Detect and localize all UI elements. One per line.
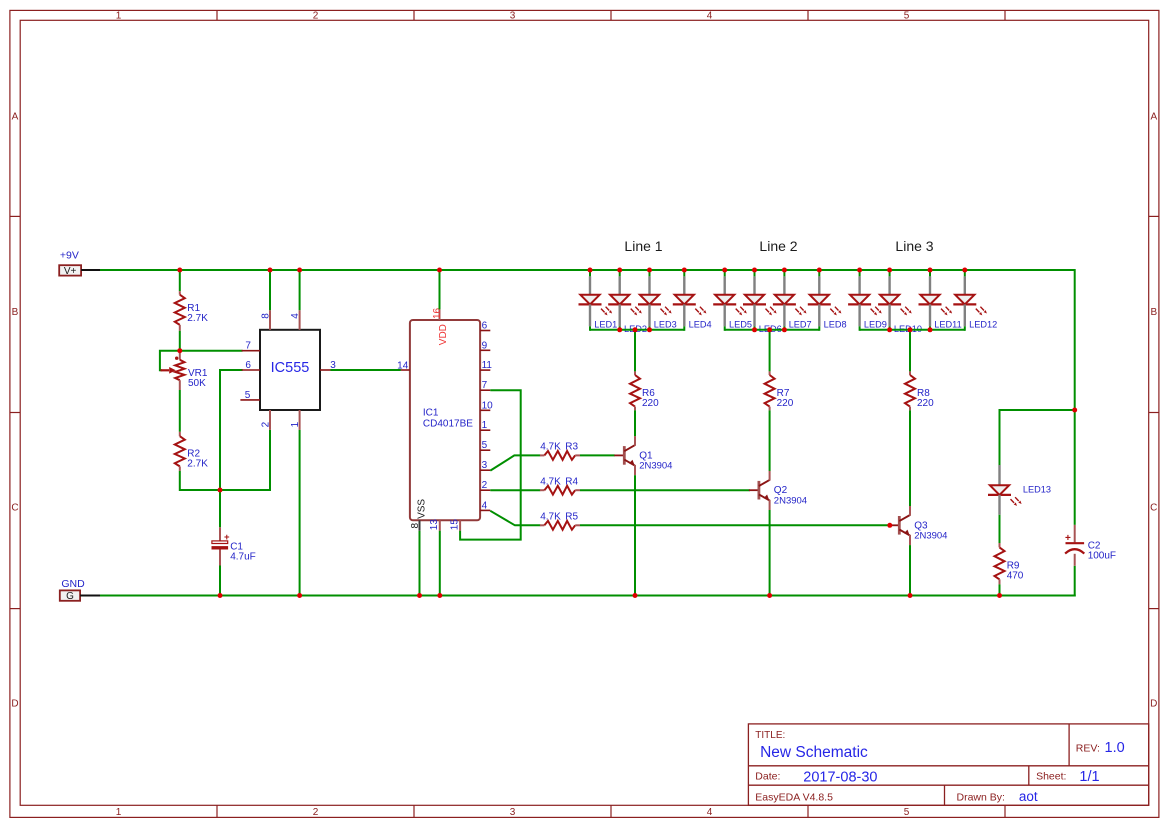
svg-text:LED8: LED8 <box>824 320 847 330</box>
LED3 <box>638 270 677 331</box>
wire line3 tap <box>909 330 911 372</box>
pin 8 stub (VSS) <box>419 520 421 531</box>
svg-text:Line 3: Line 3 <box>895 238 933 254</box>
LED1 <box>579 270 618 331</box>
power flag V+ (+9V) <box>59 250 100 277</box>
svg-text:EasyEDA V4.8.5: EasyEDA V4.8.5 <box>755 791 833 803</box>
svg-text:A: A <box>1150 112 1157 123</box>
svg-text:1/1: 1/1 <box>1079 769 1099 785</box>
svg-text:CD4017BE: CD4017BE <box>423 419 473 430</box>
svg-text:14: 14 <box>397 360 409 371</box>
svg-text:6: 6 <box>245 360 251 371</box>
wire LED13 branch top <box>1000 409 1075 411</box>
LED11 <box>919 270 962 331</box>
pin 9 stub <box>480 349 490 351</box>
svg-text:IC555: IC555 <box>271 360 310 376</box>
svg-text:7: 7 <box>245 341 251 352</box>
junction GND rail <box>297 593 302 598</box>
svg-text:4: 4 <box>482 500 488 511</box>
junction Q3 base <box>887 523 892 528</box>
junction cathode rail <box>908 327 913 332</box>
svg-text:Line 1: Line 1 <box>624 238 662 254</box>
svg-text:GND: GND <box>61 578 85 590</box>
svg-text:8: 8 <box>410 523 421 529</box>
svg-text:VDD: VDD <box>438 324 449 345</box>
svg-text:16: 16 <box>432 307 443 319</box>
junction +9V rail <box>817 268 822 273</box>
wire pin8 to GND <box>419 531 421 597</box>
junction cathode rail <box>928 327 933 332</box>
junction +9V rail <box>722 268 727 273</box>
svg-text:LED12: LED12 <box>969 320 997 330</box>
wire LED13 anode <box>999 409 1001 465</box>
wire pin2 to R4 <box>490 489 540 491</box>
svg-text:A: A <box>12 112 19 123</box>
pin 11 stub <box>480 369 490 371</box>
svg-text:1: 1 <box>116 807 122 818</box>
wire line1 cathode rail <box>590 329 684 331</box>
wire line3 cathode rail <box>860 329 965 331</box>
resistor R7 220 <box>765 371 794 410</box>
junction +9V rail <box>857 268 862 273</box>
wire node 2-6 <box>180 430 270 490</box>
wire right rail lower <box>1074 566 1076 597</box>
wire wiper loop <box>160 351 180 371</box>
svg-text:TITLE:: TITLE: <box>755 730 785 741</box>
svg-text:REV:: REV: <box>1076 743 1100 755</box>
wire pin1 to GND <box>299 430 301 597</box>
wire right rail upper <box>1074 269 1076 525</box>
resistor R2 2.7K <box>175 432 208 471</box>
svg-text:LED4: LED4 <box>689 320 712 330</box>
junction +9V rail <box>928 268 933 273</box>
pin 5 stub <box>240 399 260 401</box>
svg-text:LED13: LED13 <box>1023 485 1051 495</box>
svg-text:7: 7 <box>482 380 488 391</box>
svg-text:2017-08-30: 2017-08-30 <box>803 769 877 785</box>
svg-text:10: 10 <box>482 400 494 411</box>
junction cathode rail <box>752 327 757 332</box>
wire pin8 to V+ <box>269 270 271 310</box>
transistor Q3 2N3904 <box>889 506 947 545</box>
LED13 <box>988 465 1051 515</box>
svg-text:+9V: +9V <box>60 250 79 262</box>
svg-text:1: 1 <box>482 420 488 431</box>
pin 4 stub <box>480 509 490 511</box>
op-amp timer IC555 <box>260 330 320 410</box>
wire pin15 to pin7 <box>460 390 521 539</box>
junction node C1 <box>218 488 223 493</box>
junction GND rail <box>218 593 223 598</box>
svg-text:470: 470 <box>1007 571 1024 582</box>
wire line2 cathode rail <box>725 329 820 331</box>
wire R9 to GND <box>999 584 1001 596</box>
svg-text:8: 8 <box>260 313 271 319</box>
svg-text:LED1: LED1 <box>594 320 617 330</box>
svg-text:220: 220 <box>642 398 659 409</box>
junction +9V rail <box>268 268 273 273</box>
svg-text:2: 2 <box>260 421 271 427</box>
pin 16 stub <box>439 309 441 320</box>
svg-text:LED11: LED11 <box>934 320 961 330</box>
svg-text:5: 5 <box>482 440 488 451</box>
svg-text:2.7K: 2.7K <box>187 313 208 324</box>
junction +9V rail <box>177 268 182 273</box>
potentiometer VR1 50K <box>160 351 207 390</box>
LED5 <box>713 270 752 331</box>
svg-text:B: B <box>12 307 19 318</box>
LED12 <box>953 270 997 331</box>
pin 1 stub <box>299 410 301 430</box>
svg-text:15: 15 <box>449 519 460 531</box>
junction cathode rail <box>633 327 638 332</box>
pin 1 stub <box>480 429 490 431</box>
svg-text:B: B <box>1150 307 1157 318</box>
svg-text:2.7K: 2.7K <box>187 458 208 469</box>
wire Q3 emitter to GND <box>909 545 911 596</box>
wire +9V top rail <box>100 269 1075 271</box>
pin 10 stub <box>480 409 490 411</box>
wire C1 top <box>219 490 221 527</box>
pin 2 stub <box>480 489 490 491</box>
svg-text:9: 9 <box>482 340 488 351</box>
resistor R8 220 <box>905 371 934 410</box>
junction +9V rail <box>617 268 622 273</box>
svg-text:D: D <box>1150 698 1157 709</box>
wire VR1 to R2 <box>179 390 181 432</box>
svg-text:R3: R3 <box>565 442 578 453</box>
svg-text:Date:: Date: <box>755 771 780 783</box>
resistor R9 470 <box>995 543 1024 584</box>
svg-text:100uF: 100uF <box>1088 551 1116 562</box>
wire pin4 to V+ <box>299 270 301 310</box>
pin 4 stub <box>299 310 301 330</box>
svg-text:VSS: VSS <box>416 499 427 519</box>
resistor R3 4.7K <box>540 442 580 460</box>
capacitor C2 100uF <box>1065 525 1116 566</box>
svg-text:2N3904: 2N3904 <box>774 495 807 506</box>
svg-text:2N3904: 2N3904 <box>639 461 672 472</box>
svg-text:4.7K: 4.7K <box>540 512 561 523</box>
svg-text:IC1: IC1 <box>423 408 439 419</box>
junction cathode rail <box>617 327 622 332</box>
svg-text:2: 2 <box>313 11 319 22</box>
wire LED13 to R9 <box>999 515 1001 543</box>
junction GND rail <box>908 593 913 598</box>
svg-text:R5: R5 <box>565 512 578 523</box>
resistor R4 4.7K <box>540 476 580 494</box>
wire Q2 emitter to GND <box>769 510 771 597</box>
svg-text:R4: R4 <box>565 476 578 487</box>
transistor Q1 2N3904 <box>614 436 672 475</box>
wire R5 to Q3 base <box>580 524 890 526</box>
junction GND rail <box>767 593 772 598</box>
counter IC1 CD4017BE <box>410 320 480 520</box>
svg-text:D: D <box>11 698 18 709</box>
junction +9V rail <box>782 268 787 273</box>
svg-text:4.7uF: 4.7uF <box>230 552 256 563</box>
pin 6 stub <box>242 369 260 371</box>
capacitor C1 4.7uF <box>212 527 256 565</box>
svg-text:4.7K: 4.7K <box>540 442 561 453</box>
pin 15 stub <box>459 520 461 531</box>
LED9 <box>848 270 887 331</box>
junction cathode rail <box>767 327 772 332</box>
wire R2 to node26 <box>179 471 181 491</box>
wire node7 to pin7 <box>180 350 243 352</box>
svg-text:1: 1 <box>116 11 122 22</box>
svg-text:6: 6 <box>482 321 488 332</box>
svg-text:New Schematic: New Schematic <box>760 744 868 761</box>
wire R3 to Q1 base <box>580 454 615 456</box>
pin 3 stub <box>480 469 490 471</box>
pin 14 stub <box>401 369 410 371</box>
wire R6 to Q1 collector <box>634 410 636 436</box>
wire pin16 to V+ <box>439 270 441 309</box>
junction right rail <box>1072 408 1077 413</box>
svg-text:LED3: LED3 <box>654 320 677 330</box>
wire V+ to R1 <box>179 270 181 291</box>
svg-text:1: 1 <box>290 421 301 427</box>
LED4 <box>673 270 712 331</box>
svg-text:5: 5 <box>904 11 910 22</box>
junction cathode rail <box>887 327 892 332</box>
junction GND rail <box>437 593 442 598</box>
svg-text:C: C <box>11 503 18 514</box>
svg-text:Sheet:: Sheet: <box>1036 771 1066 783</box>
svg-text:4: 4 <box>707 807 713 818</box>
svg-text:G: G <box>66 591 74 602</box>
wire line2 tap <box>769 330 771 372</box>
svg-text:4: 4 <box>707 11 713 22</box>
svg-text:4: 4 <box>290 313 301 319</box>
junction GND rail <box>633 593 638 598</box>
junction cathode rail <box>647 327 652 332</box>
svg-text:C: C <box>1150 503 1157 514</box>
wire R8 to Q3 collector <box>909 410 911 506</box>
wire GND bottom rail <box>100 595 1076 597</box>
junction +9V rail <box>887 268 892 273</box>
transistor Q2 2N3904 <box>749 471 807 510</box>
svg-text:Drawn By:: Drawn By: <box>957 791 1005 803</box>
LED6 <box>743 270 782 334</box>
wire pin6 link <box>220 370 243 490</box>
svg-text:3: 3 <box>482 460 488 471</box>
pin 8 stub <box>269 310 271 330</box>
junction GND rail <box>417 593 422 598</box>
resistor R1 2.7K <box>175 291 208 331</box>
resistor R6 220 <box>630 371 659 410</box>
pin 2 stub <box>269 410 271 430</box>
junction +9V rail <box>297 268 302 273</box>
svg-text:Line 2: Line 2 <box>759 238 797 254</box>
wire pin3 to R3 <box>490 455 540 470</box>
wire line1 tap <box>634 330 636 372</box>
LED8 <box>808 270 847 331</box>
svg-text:11: 11 <box>482 360 493 371</box>
junction +9V rail <box>962 268 967 273</box>
junction cathode rail <box>782 327 787 332</box>
svg-text:220: 220 <box>777 398 794 409</box>
resistor R5 4.7K <box>540 512 580 530</box>
pin 3 stub <box>320 369 331 371</box>
svg-text:4.7K: 4.7K <box>540 476 561 487</box>
svg-text:LED5: LED5 <box>729 320 752 330</box>
LED7 <box>773 270 812 331</box>
junction +9V rail <box>437 268 442 273</box>
svg-text:2: 2 <box>482 480 488 491</box>
svg-text:1.0: 1.0 <box>1105 740 1125 756</box>
svg-text:2N3904: 2N3904 <box>914 531 947 542</box>
svg-text:220: 220 <box>917 398 934 409</box>
wire pin13 to GND <box>439 531 441 597</box>
pin 7 stub <box>480 389 490 391</box>
pin 5 stub <box>480 449 490 451</box>
svg-text:50K: 50K <box>188 378 206 389</box>
svg-text:5: 5 <box>904 807 910 818</box>
pin 6 stub <box>480 330 490 332</box>
svg-text:LED9: LED9 <box>864 320 887 330</box>
svg-text:3: 3 <box>510 11 516 22</box>
junction +9V rail <box>682 268 687 273</box>
wire R7 to Q2 collector <box>769 410 771 471</box>
svg-text:V+: V+ <box>64 266 77 277</box>
wire Q1 emitter to GND <box>634 475 636 596</box>
pin 7 stub <box>242 350 260 352</box>
svg-text:5: 5 <box>245 390 251 401</box>
svg-text:3: 3 <box>510 807 516 818</box>
junction +9V rail <box>647 268 652 273</box>
LED10 <box>878 270 922 334</box>
LED2 <box>608 270 647 334</box>
svg-text:LED7: LED7 <box>789 320 812 330</box>
junction node 7 <box>177 348 182 353</box>
pin 13 stub <box>439 520 441 531</box>
junction GND rail <box>997 593 1002 598</box>
wire pin4 to R5 <box>490 511 540 526</box>
svg-text:13: 13 <box>429 519 440 531</box>
junction +9V rail <box>752 268 757 273</box>
wire 555 out to 4017 clk <box>331 369 401 371</box>
junction +9V rail <box>588 268 593 273</box>
wire R4 to Q2 base <box>580 489 750 491</box>
wire R1 to node7 <box>179 331 181 352</box>
ground flag G (GND) <box>60 578 100 602</box>
svg-text:aot: aot <box>1019 789 1038 804</box>
wire C1 to GND <box>219 566 221 597</box>
svg-text:2: 2 <box>313 807 319 818</box>
